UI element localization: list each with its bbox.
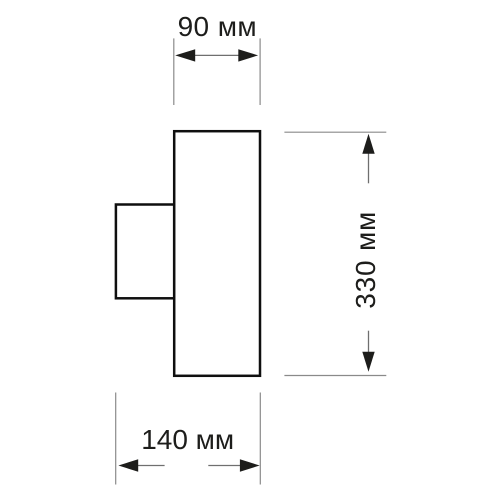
dimension 90mm: label bbox=[178, 11, 257, 42]
lamp body (main rectangle) bbox=[174, 131, 260, 376]
dimension 140mm: right dimension line segment bbox=[208, 465, 240, 467]
dimension 140mm: label bbox=[141, 424, 234, 455]
dimension 330mm: bottom extension line bbox=[284, 375, 386, 377]
dimension 90mm: left arrowhead bbox=[175, 49, 195, 61]
dimension 140mm: right arrowhead bbox=[240, 459, 260, 471]
dimension 140mm: left extension line bbox=[115, 393, 117, 485]
dimension 90mm: right extension line bbox=[259, 38, 261, 105]
dimension 330mm: label (rotated) bbox=[350, 211, 381, 309]
mounting plate (small rectangle) bbox=[116, 205, 174, 299]
dimension 140mm: left arrowhead bbox=[118, 459, 138, 471]
svg-text:140 мм: 140 мм bbox=[141, 424, 234, 455]
dimension 140mm: left dimension line segment bbox=[138, 465, 165, 467]
dimension 330mm: lower dimension line bbox=[368, 331, 370, 353]
dimension 330mm: lower arrowhead bbox=[362, 352, 374, 372]
dimension 330mm: top extension line bbox=[284, 131, 386, 133]
dimension 90mm: left extension line bbox=[173, 38, 175, 105]
dimension 90mm: dimension line bbox=[194, 54, 240, 56]
dimension 140mm: right extension line bbox=[259, 393, 261, 485]
dimension 90mm: right arrowhead bbox=[238, 49, 258, 61]
svg-text:330 мм: 330 мм bbox=[350, 211, 381, 309]
svg-text:90 мм: 90 мм bbox=[178, 11, 257, 42]
dimension 330mm: upper arrowhead bbox=[362, 134, 374, 154]
dimension 330mm: upper dimension line bbox=[368, 153, 370, 184]
